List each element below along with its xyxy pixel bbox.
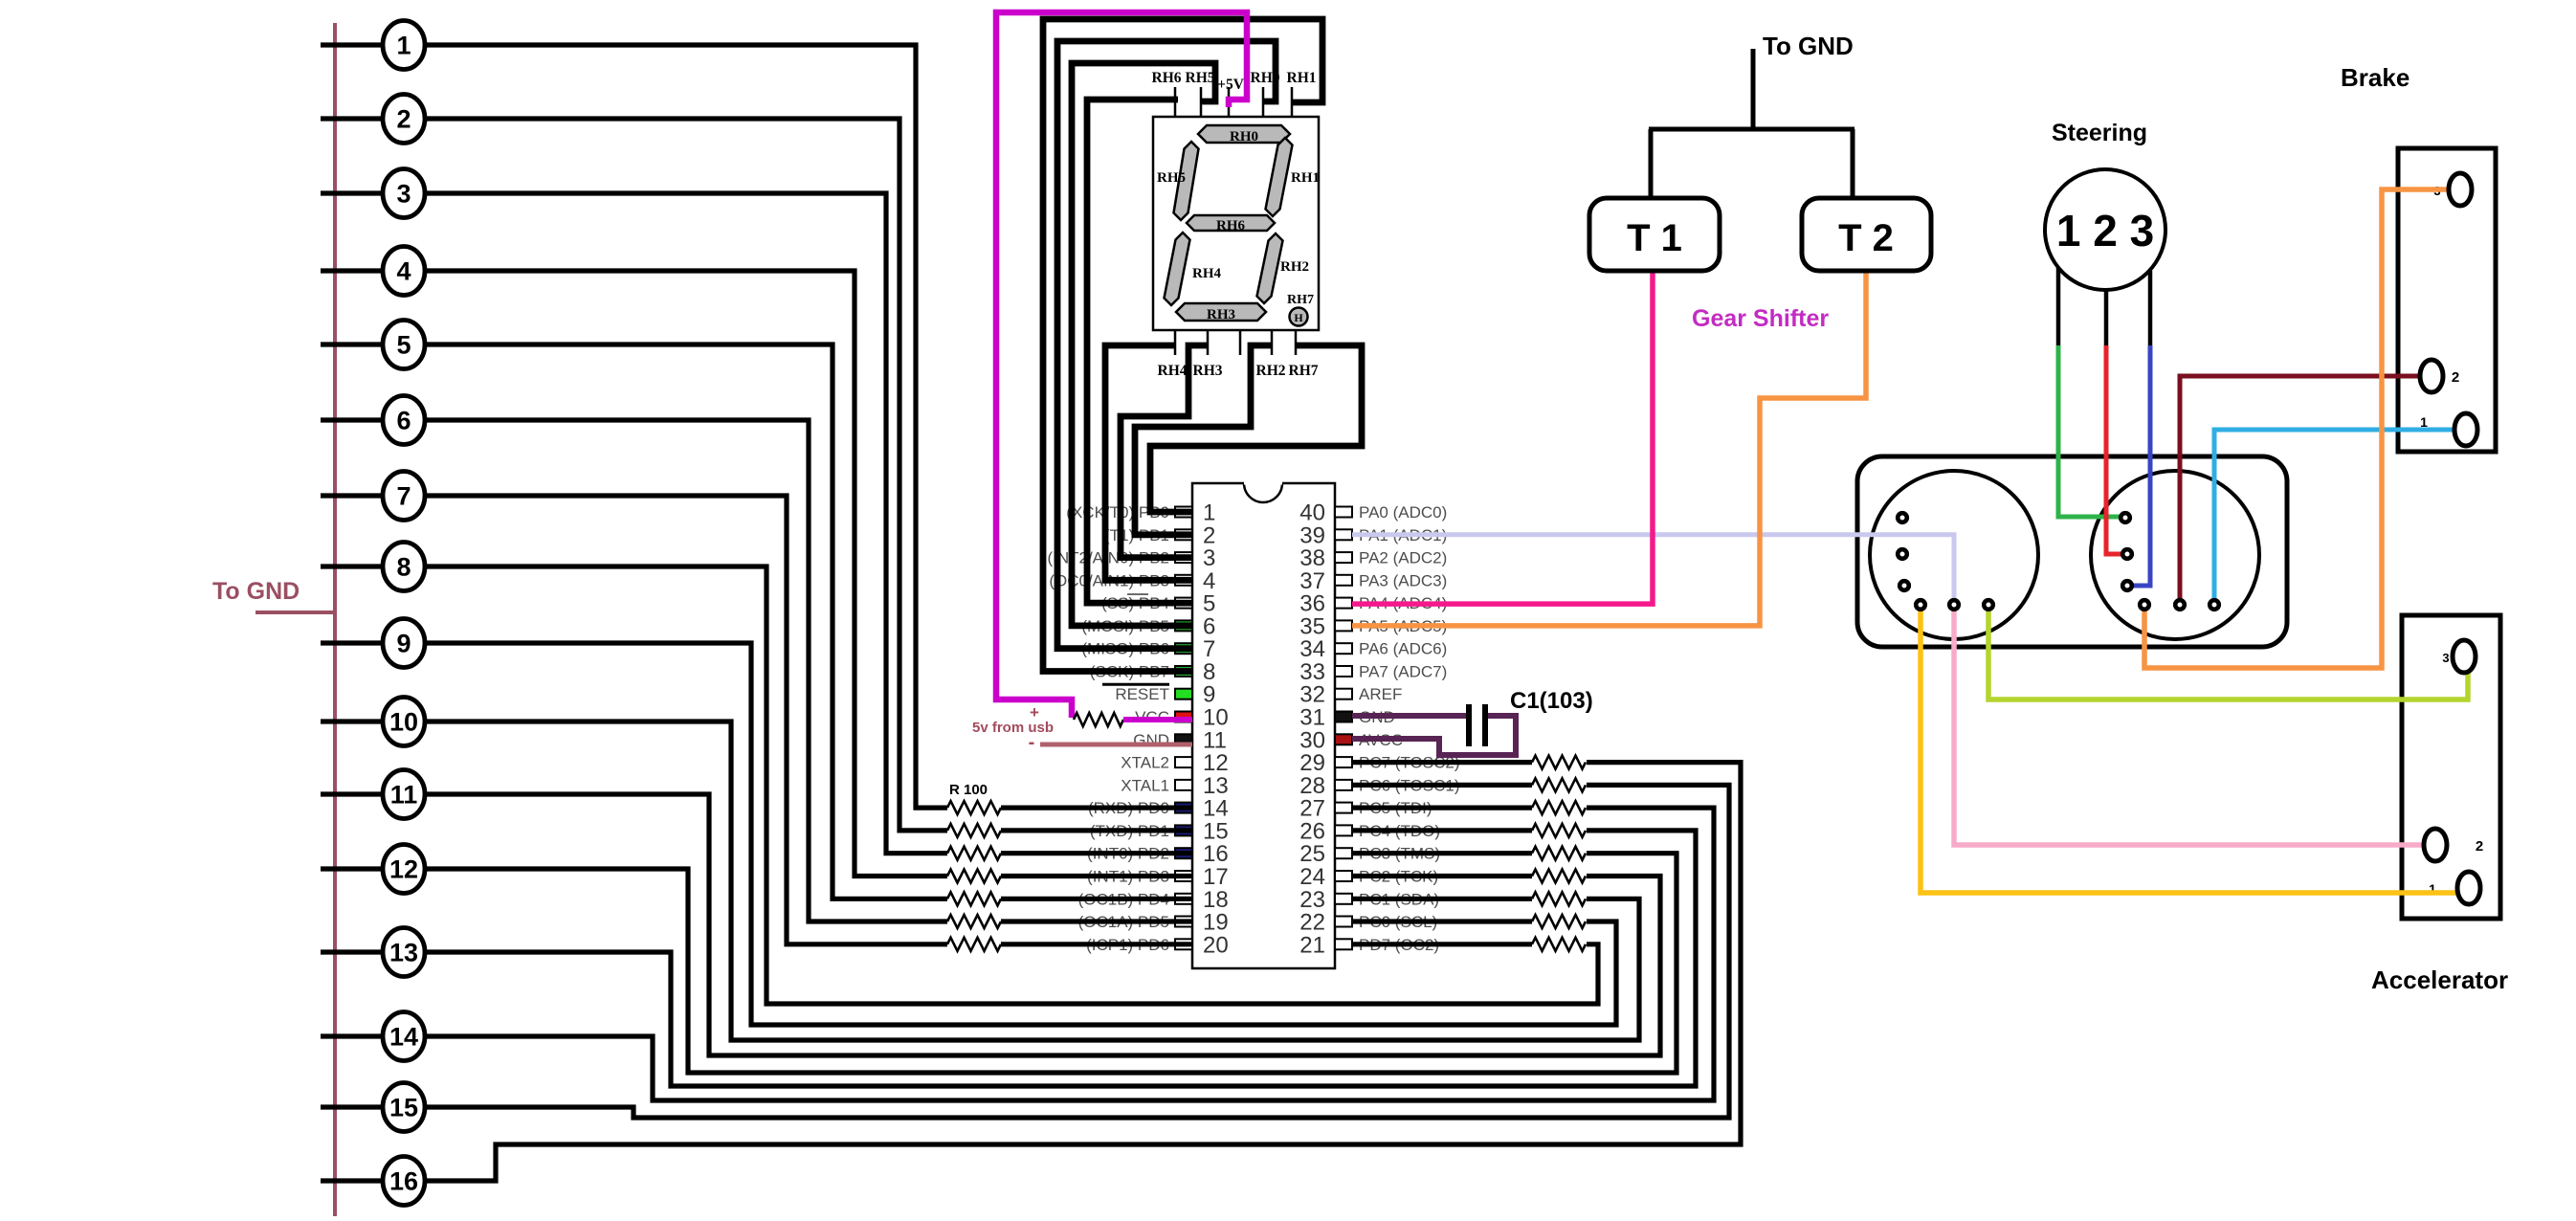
svg-text:7: 7 — [396, 482, 411, 511]
svg-text:T 2: T 2 — [1838, 217, 1894, 259]
svg-text:RH5: RH5 — [1157, 170, 1186, 186]
svg-text:4: 4 — [396, 257, 411, 286]
svg-text:PA2 (ADC2): PA2 (ADC2) — [1359, 549, 1447, 567]
svg-text:RH0: RH0 — [1230, 129, 1258, 144]
svg-text:RH2: RH2 — [1280, 259, 1309, 275]
svg-text:RH4: RH4 — [1192, 266, 1222, 281]
svg-text:RH1: RH1 — [1291, 170, 1320, 186]
svg-text:PA3 (ADC3): PA3 (ADC3) — [1359, 571, 1447, 589]
svg-text:RESET: RESET — [1115, 685, 1169, 703]
svg-text:RH5: RH5 — [1186, 70, 1215, 86]
svg-text:To GND: To GND — [1763, 32, 1854, 60]
svg-text:14: 14 — [389, 1023, 418, 1052]
svg-text:Gear Shifter: Gear Shifter — [1692, 305, 1829, 332]
svg-text:RH6: RH6 — [1152, 70, 1182, 86]
svg-text:10: 10 — [389, 708, 418, 737]
svg-text:RH1: RH1 — [1287, 70, 1317, 86]
svg-text:1 2 3: 1 2 3 — [2056, 206, 2154, 255]
svg-text:15: 15 — [389, 1094, 418, 1122]
svg-text:PA6 (ADC6): PA6 (ADC6) — [1359, 640, 1447, 658]
svg-text:21: 21 — [1299, 932, 1325, 958]
svg-text:5: 5 — [396, 331, 411, 360]
svg-text:11: 11 — [390, 781, 418, 810]
svg-text:3: 3 — [396, 180, 411, 209]
svg-text:Steering: Steering — [2052, 120, 2147, 146]
svg-text:9: 9 — [396, 630, 411, 658]
svg-text:R 100: R 100 — [949, 782, 988, 798]
svg-text:5v from usb: 5v from usb — [972, 720, 1054, 736]
svg-text:XTAL1: XTAL1 — [1121, 776, 1169, 794]
svg-text:1: 1 — [396, 32, 411, 60]
svg-text:XTAL2: XTAL2 — [1121, 754, 1169, 772]
svg-text:13: 13 — [389, 939, 418, 967]
svg-text:Accelerator: Accelerator — [2371, 966, 2508, 994]
svg-text:PA7 (ADC7): PA7 (ADC7) — [1359, 663, 1447, 681]
svg-text:16: 16 — [389, 1167, 418, 1196]
svg-text:RH6: RH6 — [1216, 218, 1246, 233]
svg-text:-: - — [1029, 732, 1035, 753]
svg-text:12: 12 — [389, 855, 418, 884]
svg-text:RH2: RH2 — [1256, 363, 1286, 379]
svg-text:+5V: +5V — [1217, 77, 1245, 93]
svg-text:2: 2 — [396, 105, 411, 134]
svg-text:RH7: RH7 — [1289, 363, 1319, 379]
svg-text:6: 6 — [396, 407, 411, 435]
svg-text:3: 3 — [2442, 651, 2449, 665]
svg-text:RH7: RH7 — [1287, 293, 1314, 307]
svg-text:C1(103): C1(103) — [1510, 688, 1593, 714]
svg-text:H: H — [1294, 311, 1303, 324]
svg-text:2: 2 — [2452, 369, 2459, 386]
svg-text:RH3: RH3 — [1193, 363, 1223, 379]
svg-text:Brake: Brake — [2341, 63, 2409, 92]
svg-text:RH3: RH3 — [1207, 307, 1235, 322]
svg-text:T 1: T 1 — [1627, 217, 1682, 259]
svg-text:2: 2 — [2476, 838, 2483, 855]
svg-text:AREF: AREF — [1359, 685, 1402, 703]
svg-text:PA0 (ADC0): PA0 (ADC0) — [1359, 503, 1447, 522]
svg-text:8: 8 — [396, 553, 411, 582]
svg-text:To GND: To GND — [212, 578, 300, 605]
svg-text:RH4: RH4 — [1158, 363, 1188, 379]
svg-text:20: 20 — [1203, 932, 1229, 958]
